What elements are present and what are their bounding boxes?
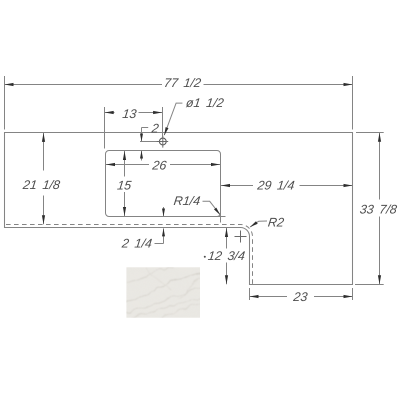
svg-text:13: 13	[122, 107, 138, 121]
label R2 center mark	[235, 236, 247, 238]
dim 33 7/8 extension line bottom	[355, 284, 384, 286]
dim 77 1/2 extension line right	[352, 76, 354, 130]
marble swatch	[126, 266, 201, 318]
dim 29 1/4 arrows	[221, 184, 230, 187]
dim 2 lower arrow	[141, 151, 143, 161]
svg-text:23: 23	[292, 290, 309, 304]
dim 13 extension line right (faucet centerline)	[162, 107, 164, 138]
dim 13 arrows	[105, 111, 114, 114]
dim 21 1/8 line	[43, 133, 45, 171]
dim 23 extension line left	[249, 288, 251, 300]
dim 23 extension line right	[352, 288, 354, 300]
dim 77 1/2 arrows	[5, 83, 14, 86]
svg-text:R1/4: R1/4	[173, 194, 201, 208]
sink cutout	[106, 151, 221, 217]
dim 12 3/4 line	[226, 228, 228, 249]
dim 33 7/8 arrows	[378, 133, 381, 142]
dim 77 1/2 extension line left	[4, 76, 6, 130]
faucet hole circle	[159, 138, 166, 145]
label R2 leader	[250, 221, 267, 227]
label ø1 1/2 leader	[164, 103, 182, 135]
dim 26 line	[106, 164, 149, 166]
dim 2 upper arrow and stem	[141, 128, 143, 142]
label R1/4 corner tick marks	[216, 216, 226, 218]
dim 26 arrows	[106, 163, 115, 166]
dim 12 3/4 arrows	[225, 228, 228, 237]
dashed edge profile line	[6, 225, 253, 285]
svg-text:R2: R2	[267, 215, 285, 229]
svg-text:21 1/8: 21 1/8	[21, 178, 61, 192]
faucet hole crosshair	[157, 141, 169, 143]
dim 23 arrows	[250, 295, 259, 298]
svg-text:2 1/4: 2 1/4	[120, 236, 153, 250]
svg-text:77 1/2: 77 1/2	[163, 76, 202, 90]
svg-text:29 1/4: 29 1/4	[256, 179, 296, 193]
dim 2 1/4 upper arrow	[163, 207, 165, 217]
dim 15 line	[124, 151, 126, 177]
dim 23 line	[250, 296, 288, 298]
svg-text:33 7/8: 33 7/8	[359, 202, 398, 216]
dim 2 1/4 lower arrow and hook	[163, 228, 165, 243]
svg-text:12 3/4: 12 3/4	[207, 249, 246, 263]
dim 33 7/8 line	[379, 133, 381, 200]
dim 15 arrows	[123, 151, 126, 160]
dim 2 extension line (hole centerline)	[140, 141, 157, 143]
dim 33 7/8 extension line top	[356, 132, 384, 134]
svg-text:26: 26	[151, 159, 168, 173]
dim 21 1/8 arrows	[42, 133, 45, 142]
dim 77 1/2 line	[5, 84, 163, 86]
dim 29 1/4 line	[221, 185, 253, 187]
countertop outline	[5, 133, 353, 285]
svg-text:15: 15	[116, 179, 132, 193]
dim 13 extension line left	[104, 107, 106, 149]
svg-text:2: 2	[150, 121, 160, 135]
svg-text:ø1 1/2: ø1 1/2	[185, 96, 224, 110]
label R1/4 leader	[203, 201, 221, 214]
dim 13 line	[105, 112, 115, 114]
